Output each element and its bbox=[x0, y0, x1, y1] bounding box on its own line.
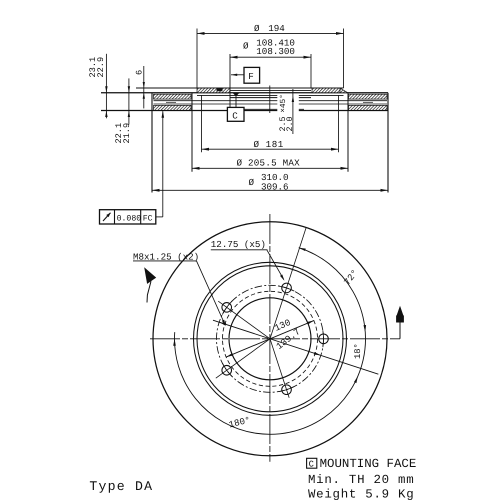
svg-text:108.300: 108.300 bbox=[256, 46, 295, 57]
svg-text:F: F bbox=[248, 71, 254, 82]
svg-text:Weight 5.9 Kg: Weight 5.9 Kg bbox=[308, 488, 414, 500]
svg-text:2.0: 2.0 bbox=[285, 116, 295, 131]
svg-text:6: 6 bbox=[134, 70, 144, 75]
svg-text:Ø 181: Ø 181 bbox=[254, 139, 284, 150]
svg-text:C: C bbox=[309, 459, 314, 469]
svg-text:Ø 205.5 MAX: Ø 205.5 MAX bbox=[237, 157, 301, 168]
svg-text:C: C bbox=[232, 110, 238, 121]
svg-text:12.75 (x5): 12.75 (x5) bbox=[211, 239, 266, 250]
svg-text:309.6: 309.6 bbox=[261, 181, 289, 192]
svg-text:Min. TH 20 mm: Min. TH 20 mm bbox=[308, 473, 414, 487]
svg-text:Type DA: Type DA bbox=[89, 479, 153, 494]
svg-text:21.9: 21.9 bbox=[122, 123, 132, 144]
svg-text:0.080: 0.080 bbox=[117, 214, 142, 223]
svg-text:Ø: Ø bbox=[249, 177, 255, 188]
svg-text:MOUNTING FACE: MOUNTING FACE bbox=[320, 457, 417, 471]
svg-text:Ø: Ø bbox=[243, 41, 249, 52]
svg-text:22.9: 22.9 bbox=[96, 57, 106, 78]
svg-text:FC: FC bbox=[143, 214, 153, 223]
svg-text:194: 194 bbox=[268, 23, 285, 34]
svg-text:Ø: Ø bbox=[254, 23, 260, 34]
svg-text:18°: 18° bbox=[353, 343, 363, 359]
svg-text:×45°: ×45° bbox=[279, 94, 288, 113]
